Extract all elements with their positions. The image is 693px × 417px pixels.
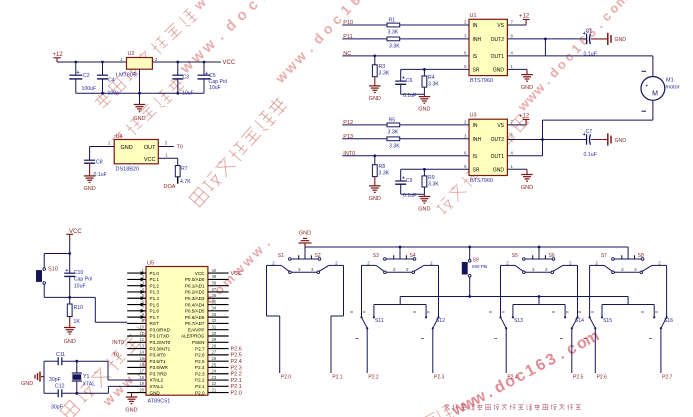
svg-text:+: + — [205, 71, 208, 77]
wire U5 left pin stubs with numbers and arrows — [127, 268, 146, 393]
svg-text:0.1uF: 0.1uF — [584, 152, 597, 158]
node rail junction C3 — [176, 61, 179, 64]
svg-text:+: + — [65, 268, 68, 274]
svg-text:P2.0: P2.0 — [231, 390, 242, 396]
node row bus bracket2 junction — [538, 295, 541, 298]
svg-text:XTAL2: XTAL2 — [150, 378, 164, 383]
capacitor C6 0.1uF — [395, 69, 416, 99]
svg-text:20: 20 — [139, 387, 144, 392]
power ground bar at C1 — [591, 33, 626, 45]
svg-text:P2.6: P2.6 — [231, 346, 242, 352]
svg-text:VS: VS — [497, 123, 504, 129]
svg-text:3.3K: 3.3K — [428, 182, 439, 188]
ground GND under R8 — [369, 186, 381, 202]
wire INT0 row — [342, 155, 469, 157]
svg-text:IN: IN — [473, 123, 478, 129]
motor driver U1 BTS7960 — [464, 13, 513, 84]
svg-text:S1: S1 — [278, 253, 284, 259]
svg-text:IN: IN — [473, 23, 478, 29]
node row bus S9 junction — [468, 295, 471, 298]
switch S15 — [578, 265, 628, 373]
svg-text:XTAL1: XTAL1 — [150, 384, 164, 389]
svg-text:24: 24 — [212, 369, 217, 374]
switch S12 — [400, 265, 445, 373]
svg-text:3.3K: 3.3K — [428, 82, 439, 88]
net label P13 — [343, 134, 353, 140]
svg-text:P2.6: P2.6 — [195, 353, 205, 358]
svg-text:GND: GND — [521, 185, 533, 191]
svg-text:C10: C10 — [74, 270, 84, 276]
svg-text:+: + — [402, 76, 405, 82]
svg-text:P2.1: P2.1 — [231, 378, 242, 384]
wire P10 row — [342, 24, 469, 26]
svg-text:32: 32 — [212, 318, 217, 323]
svg-text:1K: 1K — [74, 319, 81, 325]
svg-text:GND: GND — [150, 390, 161, 395]
net label P2.3 — [434, 375, 445, 381]
svg-text:VCC: VCC — [223, 60, 236, 66]
resistor R4 3.3K — [422, 69, 439, 94]
power ground left of crystal — [21, 372, 44, 387]
key S5 and S6 common bar — [512, 253, 555, 260]
wire branch to S10 — [44, 254, 69, 268]
svg-text:10uF: 10uF — [209, 85, 221, 91]
svg-text:18: 18 — [139, 375, 144, 380]
svg-text:T0: T0 — [113, 352, 119, 358]
regulator U2 LM7805 — [116, 51, 158, 78]
net label P2.7 — [662, 375, 673, 381]
svg-text:U4: U4 — [116, 134, 123, 140]
svg-text:P0.0/AD0: P0.0/AD0 — [185, 277, 205, 282]
svg-text:S8: S8 — [638, 253, 644, 259]
svg-text:S16: S16 — [664, 318, 673, 324]
svg-text:P0.7/AD7: P0.7/AD7 — [185, 321, 205, 326]
wire P13 row — [342, 138, 469, 140]
net label P2.1 — [332, 375, 343, 381]
svg-text:26: 26 — [212, 356, 217, 361]
crystal Y1 XTAL — [72, 360, 95, 395]
svg-text:S12: S12 — [436, 318, 445, 324]
svg-text:S7: S7 — [601, 253, 607, 259]
net label P11 — [343, 34, 352, 40]
svg-text:AT89C51: AT89C51 — [148, 399, 171, 405]
key S1/S2 contact assembly — [267, 260, 344, 273]
svg-text:S15: S15 — [603, 318, 612, 324]
wire bottom rail — [76, 92, 204, 94]
resistor R10 1K — [67, 297, 83, 327]
svg-text:3.3K: 3.3K — [379, 170, 390, 176]
resistor R7 4.7K — [175, 166, 191, 186]
wire bracket2 drop — [538, 297, 540, 305]
net label P2.6 — [597, 375, 608, 381]
svg-text:0.1uF: 0.1uF — [94, 172, 107, 178]
svg-text:P2.0: P2.0 — [195, 390, 205, 395]
svg-text:S10: S10 — [48, 267, 58, 273]
power port VCC reset — [66, 229, 82, 239]
svg-text:P3.0/RXD: P3.0/RXD — [150, 327, 171, 332]
capacitor C12 30pF — [44, 384, 108, 411]
wire bracket1 drop — [399, 297, 401, 305]
wire row bus — [400, 296, 628, 298]
svg-text:VCC: VCC — [231, 271, 243, 277]
node bus junction x539 — [538, 246, 541, 249]
svg-text:P2.4: P2.4 — [231, 359, 242, 365]
switch S13 — [489, 265, 539, 373]
wire U1 OUT2 row — [507, 38, 586, 40]
wire U3 OUT cross — [542, 140, 544, 156]
wire bus drop group 3 — [538, 247, 540, 259]
key S5/S6 contact assembly — [501, 260, 578, 273]
wire +12 rail — [57, 61, 127, 63]
capacitor C9 0.1uF — [395, 169, 416, 199]
net label DOA — [164, 184, 176, 190]
svg-text:10: 10 — [139, 325, 144, 330]
svg-text:SW-PB: SW-PB — [472, 264, 488, 270]
svg-text:P2.2: P2.2 — [195, 378, 205, 383]
svg-text:C2: C2 — [83, 73, 90, 79]
svg-text:P2.2: P2.2 — [231, 372, 242, 378]
svg-text:VCC: VCC — [144, 157, 156, 163]
svg-text:EA/VPP: EA/VPP — [188, 327, 205, 332]
svg-text:+: + — [402, 176, 405, 182]
svg-text:39: 39 — [212, 274, 217, 279]
svg-text:S9: S9 — [473, 258, 479, 264]
net labels P2.6-P2.0 at pins 28-21 — [231, 346, 242, 396]
svg-text:motor: motor — [666, 84, 680, 90]
svg-text:3.3K: 3.3K — [379, 70, 390, 76]
svg-text:28: 28 — [212, 343, 217, 348]
svg-text:34: 34 — [212, 306, 217, 311]
svg-text:P0.4/AD4: P0.4/AD4 — [185, 302, 205, 307]
wire bus drop group 1 — [304, 247, 306, 259]
power port +12 — [53, 52, 64, 62]
resistor R9 3.3K — [422, 169, 439, 194]
wire column P2.1 — [331, 265, 344, 373]
svg-text:C4: C4 — [108, 78, 115, 84]
power port +12 at U1 — [507, 14, 529, 26]
wire C8 to ground — [89, 163, 91, 176]
svg-text:P1.4: P1.4 — [150, 296, 160, 301]
svg-text:GND: GND — [615, 138, 627, 144]
power port +12 at U3 — [507, 113, 529, 125]
power port VCC — [223, 60, 236, 66]
wire U4 pin2 — [90, 140, 115, 146]
svg-text:P3.6/WR: P3.6/WR — [150, 365, 169, 370]
svg-text:U2: U2 — [128, 51, 135, 57]
switch S10 reset key — [37, 267, 70, 298]
svg-text:3.3K: 3.3K — [388, 30, 399, 36]
net label P2.4 — [507, 375, 518, 381]
svg-text:R5: R5 — [389, 118, 396, 124]
ground GND under R9 — [418, 194, 430, 212]
svg-text:P2.7: P2.7 — [662, 375, 673, 381]
svg-text:GND: GND — [125, 408, 137, 414]
svg-text:P2.3: P2.3 — [434, 375, 445, 381]
svg-text:INH: INH — [473, 37, 482, 43]
motor driver U3 BTS7960 — [464, 113, 513, 184]
svg-text:RST: RST — [150, 321, 159, 326]
svg-text:3.3K: 3.3K — [388, 130, 399, 136]
svg-text:P2.1: P2.1 — [195, 384, 205, 389]
net label INT0 at pin12 — [112, 340, 124, 346]
net label NC — [343, 51, 351, 57]
ground GND under R3 — [369, 86, 381, 102]
node junction SR — [423, 168, 426, 171]
wire U5 right pin stubs with numbers — [208, 268, 229, 393]
net label P2.2 — [368, 375, 379, 381]
svg-text:GND: GND — [83, 186, 95, 192]
svg-text:3.3K: 3.3K — [389, 44, 400, 50]
node junction reset bottom — [68, 296, 71, 299]
svg-text:0.1uF: 0.1uF — [584, 51, 597, 57]
net label T0 — [177, 145, 183, 151]
svg-text:P0.1/AD1: P0.1/AD1 — [185, 283, 205, 288]
wire column P2.0 — [267, 265, 280, 373]
svg-text:22: 22 — [212, 381, 217, 386]
svg-text:S2: S2 — [315, 253, 321, 259]
node bus junction x400 — [399, 246, 402, 249]
svg-text:P1.3: P1.3 — [150, 290, 160, 295]
svg-text:P0.5/AD5: P0.5/AD5 — [185, 309, 205, 314]
svg-text:P3.4/T0: P3.4/T0 — [150, 353, 167, 358]
svg-text:P1.5: P1.5 — [150, 302, 160, 307]
wire XTAL2 — [108, 361, 146, 380]
wire bracket3 drop — [627, 297, 629, 305]
wire rail out — [152, 61, 221, 63]
svg-text:17: 17 — [139, 369, 144, 374]
svg-text:+: + — [645, 84, 648, 90]
svg-text:P2.4: P2.4 — [195, 365, 205, 370]
svg-text:GND: GND — [21, 381, 33, 387]
resistor R3 3.3K — [372, 56, 389, 86]
sensor U4 DS18B20 — [114, 134, 158, 173]
svg-text:S14: S14 — [575, 318, 584, 324]
wire R7 bottom — [177, 177, 179, 184]
wire XTAL1 — [108, 386, 146, 393]
svg-text:GND: GND — [369, 196, 381, 202]
switch S11 — [350, 265, 400, 373]
svg-text:+12: +12 — [519, 14, 530, 20]
capacitor C5 Cap Pol 10uF — [198, 62, 227, 93]
svg-text:P2.2: P2.2 — [368, 375, 379, 381]
svg-text:35: 35 — [212, 299, 217, 304]
svg-text:R1: R1 — [389, 18, 396, 24]
svg-text:M1: M1 — [666, 78, 674, 84]
svg-text:C7: C7 — [586, 129, 593, 135]
wire SR branch — [401, 68, 469, 70]
ground GND under pin20 — [125, 393, 137, 414]
svg-text:GND: GND — [615, 37, 627, 43]
svg-text:P2.3: P2.3 — [231, 365, 242, 371]
net label T0 at pin14 — [113, 352, 119, 358]
svg-text:U3: U3 — [470, 113, 477, 119]
svg-text:P1.1: P1.1 — [150, 277, 160, 282]
svg-text:P2.5: P2.5 — [231, 353, 242, 359]
wire U1 OUT1 to motor — [507, 56, 653, 77]
svg-text:IS: IS — [473, 154, 478, 160]
svg-text:PSEN: PSEN — [192, 340, 205, 345]
wire SR bottom — [401, 93, 425, 95]
ground GND under U2 — [133, 105, 145, 123]
svg-text:11: 11 — [140, 331, 145, 336]
wire SR branch — [401, 168, 469, 170]
svg-text:GND: GND — [418, 207, 430, 213]
svg-text:P2.1: P2.1 — [332, 375, 343, 381]
wire bus drop group 2 — [399, 247, 401, 259]
key S7/S8 contact assembly — [590, 260, 667, 273]
svg-text:P2.5: P2.5 — [195, 359, 205, 364]
node junction reset top — [68, 252, 71, 255]
svg-text:Cap Pol: Cap Pol — [74, 277, 92, 283]
svg-text:P2.7: P2.7 — [195, 346, 205, 351]
node junction SR — [423, 68, 426, 71]
svg-text:GND: GND — [299, 230, 311, 236]
wire U3 OUT1 row — [507, 155, 542, 157]
capacitor C2 100uF — [69, 62, 96, 93]
ground GND under R4 — [418, 94, 430, 112]
node pin2 bottom rail junction — [138, 92, 141, 95]
switch S16 — [628, 265, 673, 373]
svg-text:C9: C9 — [406, 178, 413, 184]
svg-text:S4: S4 — [410, 253, 416, 259]
svg-text:DOA: DOA — [164, 184, 176, 190]
svg-text:21: 21 — [212, 387, 217, 392]
node junction OUT2 U3 — [541, 138, 544, 141]
svg-text:30pF: 30pF — [51, 405, 63, 411]
svg-text:P0.3/AD3: P0.3/AD3 — [185, 296, 205, 301]
resistor R5 3.3K — [387, 118, 400, 136]
wire SR bottom — [401, 193, 425, 195]
resistor R8 3.3K — [372, 156, 389, 186]
wire U1 OUT cross — [544, 39, 546, 56]
svg-text:P3.7/RD: P3.7/RD — [150, 371, 168, 376]
svg-text:GND: GND — [369, 96, 381, 102]
svg-text:31: 31 — [212, 325, 217, 330]
svg-text:S6: S6 — [549, 253, 555, 259]
svg-text:GND: GND — [493, 67, 505, 73]
node junction OUT2 U1 — [544, 38, 547, 41]
svg-text:13: 13 — [139, 343, 144, 348]
svg-text:30pF: 30pF — [49, 377, 61, 383]
svg-text:C11: C11 — [56, 352, 65, 358]
svg-text:P0.2/AD2: P0.2/AD2 — [185, 290, 205, 295]
svg-text:GND: GND — [521, 85, 533, 91]
node rail junction C5 — [203, 61, 206, 64]
node bottom rail junction C3 — [176, 92, 179, 95]
svg-text:P3.1/TXD: P3.1/TXD — [150, 334, 171, 339]
svg-text:C1: C1 — [586, 28, 593, 34]
svg-text:38: 38 — [212, 280, 217, 285]
svg-text:25: 25 — [212, 362, 217, 367]
svg-text:R9: R9 — [428, 175, 435, 181]
svg-text:R8: R8 — [379, 164, 386, 170]
svg-text:37: 37 — [212, 287, 217, 292]
svg-text:GND: GND — [121, 145, 133, 151]
svg-text:SR: SR — [473, 167, 480, 173]
svg-text:C12: C12 — [55, 384, 65, 390]
motor M1 — [641, 71, 680, 111]
svg-text:P2.1: P2.1 — [231, 384, 242, 390]
resistor R6 3.3K — [387, 137, 400, 150]
node bus junction x469.7 — [468, 246, 471, 249]
wire NC row — [342, 55, 469, 57]
key S1 and S2 common bar — [278, 253, 321, 260]
switch S14 — [539, 265, 584, 373]
resistor R2 3.3K — [387, 37, 400, 50]
svg-text:T0: T0 — [177, 145, 183, 151]
svg-text:P2.6: P2.6 — [597, 375, 608, 381]
svg-text:P3.2/INT0: P3.2/INT0 — [150, 340, 171, 345]
svg-text:16: 16 — [139, 362, 144, 367]
svg-text:C3: C3 — [183, 75, 190, 81]
node rail junction C4 — [101, 61, 104, 64]
svg-text:OUT: OUT — [144, 145, 156, 151]
svg-text:GND: GND — [133, 116, 145, 122]
svg-text:R10: R10 — [74, 305, 84, 311]
net label INT0 — [343, 151, 355, 157]
svg-text:10uF: 10uF — [74, 283, 86, 289]
wire GND bus — [305, 246, 628, 248]
wire bus drop group 4 — [627, 247, 629, 259]
svg-text:OUT1: OUT1 — [491, 54, 505, 60]
svg-text:P2.5: P2.5 — [573, 375, 584, 381]
svg-text:S3: S3 — [373, 253, 379, 259]
svg-text:19: 19 — [139, 381, 144, 386]
key S3 and S4 common bar — [373, 253, 416, 260]
ground GND under C8 — [83, 176, 95, 192]
svg-text:OUT1: OUT1 — [491, 154, 505, 160]
wire motor bottom — [543, 100, 653, 139]
node bottom rail junction C4 — [101, 92, 104, 95]
wire VCC down — [69, 239, 71, 273]
svg-text:U5: U5 — [147, 260, 154, 266]
svg-text:VS: VS — [497, 23, 504, 29]
svg-text:GND: GND — [64, 339, 76, 345]
svg-text:15: 15 — [139, 356, 144, 361]
svg-text:OUT2: OUT2 — [491, 137, 505, 143]
svg-text:R4: R4 — [428, 75, 435, 81]
svg-text:3.3K: 3.3K — [389, 143, 400, 149]
svg-text:C6: C6 — [406, 78, 413, 84]
svg-text:4.7K: 4.7K — [180, 179, 191, 185]
svg-text:40: 40 — [212, 268, 217, 273]
net label P2.0 — [281, 375, 292, 381]
svg-text:23: 23 — [212, 375, 217, 380]
switch S9 SW-PB — [462, 247, 487, 297]
svg-text:S11: S11 — [375, 318, 384, 324]
wire P12 row — [342, 124, 469, 126]
svg-text:33: 33 — [212, 312, 217, 317]
ground GND at U1 pin1 — [507, 69, 533, 91]
svg-text:P1.2: P1.2 — [150, 283, 160, 288]
key S7 and S8 common bar — [601, 253, 644, 260]
svg-text:R7: R7 — [181, 166, 188, 172]
svg-text:+: + — [76, 70, 79, 76]
svg-text:GND: GND — [418, 107, 430, 113]
capacitor C8 0.1uF — [84, 147, 107, 179]
capacitor C4 100n — [97, 62, 119, 96]
net label VCC at pin40 — [231, 271, 243, 277]
svg-text:29: 29 — [212, 337, 217, 342]
svg-text:U1: U1 — [470, 13, 477, 19]
svg-text:C8: C8 — [96, 160, 103, 166]
svg-text:S13: S13 — [514, 318, 523, 324]
net label P12 — [343, 120, 353, 126]
svg-text:P3.3/INT1: P3.3/INT1 — [150, 346, 171, 351]
svg-text:12: 12 — [139, 337, 144, 342]
wire P11 row — [342, 38, 469, 40]
node junction R3 tap — [373, 55, 376, 58]
